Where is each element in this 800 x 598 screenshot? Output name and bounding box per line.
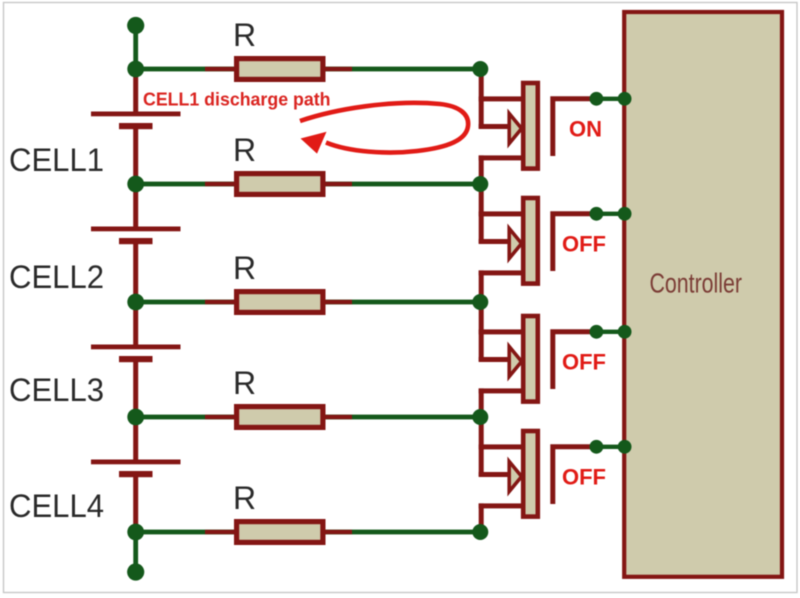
junction dot: node TAP1 at battery column <box>127 61 144 78</box>
svg-text:Controller: Controller <box>650 268 743 299</box>
junction dot: node TAP2 at MOSFET column <box>472 176 488 192</box>
junction dot: Controller pin 1 <box>618 92 632 106</box>
svg-text:OFF: OFF <box>562 349 606 374</box>
resistor R4 leads (dark red) on net TAP4 <box>205 415 352 419</box>
svg-text:CELL2: CELL2 <box>9 259 104 295</box>
wire: gate of Q2 to Controller pin 2 (green stub) <box>595 212 625 216</box>
transistor Q3 (N-MOSFET switch across CELL3) <box>479 302 598 417</box>
svg-text:OFF: OFF <box>562 231 606 256</box>
resistor R5 leads (dark red) on net TAP5 <box>205 530 352 534</box>
junction dot: gate net Q4 <box>590 440 604 454</box>
node: pack positive terminal dot <box>127 17 144 34</box>
wire: gate of Q1 to Controller pin 1 (green stub) <box>595 97 625 101</box>
resistor R5 body <box>237 522 323 543</box>
svg-text:CELL3: CELL3 <box>9 372 104 408</box>
resistor R3 leads (dark red) on net TAP3 <box>205 300 352 304</box>
junction dot: node TAP1 at MOSFET column <box>472 61 488 77</box>
wire: node TAP5 to battery stack bottom terminal <box>133 532 138 572</box>
svg-text:R: R <box>233 250 256 286</box>
transistor Q1 (N-MOSFET switch across CELL1) <box>479 69 598 184</box>
junction dot: node TAP3 at MOSFET column <box>472 294 488 310</box>
junction dot: node TAP3 at battery column <box>127 294 144 311</box>
junction dot: node TAP4 at battery column <box>127 409 144 426</box>
svg-text:R: R <box>233 365 256 401</box>
battery cell CELL1 (B1) <box>91 71 181 184</box>
junction dot: gate net Q3 <box>590 325 604 339</box>
battery cell CELL3 (B3) <box>91 304 181 417</box>
junction dot: Controller pin 4 <box>618 440 632 454</box>
resistor R1 leads (dark red) on net TAP1 <box>205 67 352 71</box>
svg-text:CELL1 discharge path: CELL1 discharge path <box>143 90 331 110</box>
junction dot: Controller pin 2 <box>618 207 632 221</box>
junction dot: node TAP2 at battery column <box>127 176 144 193</box>
wire: net TAP2 horizontal from battery column to MOSFET column <box>134 182 483 187</box>
svg-text:R: R <box>233 480 256 516</box>
junction dot: node TAP5 at MOSFET column <box>472 524 488 540</box>
junction dot: node TAP5 at battery column <box>127 524 144 541</box>
junction dot: Controller pin 3 <box>618 325 632 339</box>
resistor R2 leads (dark red) on net TAP2 <box>205 182 352 186</box>
transistor Q2 (N-MOSFET switch across CELL2) <box>479 184 598 302</box>
resistor R3 body <box>237 292 323 313</box>
junction dot: node TAP4 at MOSFET column <box>472 409 488 425</box>
wire: gate of Q4 to Controller pin 4 (green stub) <box>595 445 625 449</box>
wire: net TAP5 horizontal from battery column to MOSFET column <box>134 530 483 535</box>
node: pack negative terminal dot <box>127 563 144 580</box>
wire: battery stack top terminal to node TAP1 <box>133 25 138 69</box>
junction dot: gate net Q1 <box>590 92 604 106</box>
resistor R2 body <box>237 174 323 195</box>
svg-text:R: R <box>233 132 256 168</box>
battery cell CELL4 (B4) <box>91 419 181 532</box>
svg-text:ON: ON <box>569 116 602 141</box>
svg-text:R: R <box>233 17 256 53</box>
junction dot: gate net Q2 <box>590 207 604 221</box>
resistor R1 body <box>237 59 323 80</box>
controller U1 body <box>624 12 782 577</box>
svg-text:CELL4: CELL4 <box>9 488 104 524</box>
svg-text:OFF: OFF <box>562 464 606 489</box>
battery cell CELL2 (B2) <box>91 186 181 302</box>
annotation arrow: CELL1 discharge current loop <box>300 103 468 154</box>
wire: net TAP1 horizontal from battery column to MOSFET column <box>134 67 483 72</box>
resistor R4 body <box>237 407 323 428</box>
transistor Q4 (N-MOSFET switch across CELL4) <box>479 417 598 532</box>
svg-text:CELL1: CELL1 <box>9 142 104 178</box>
wire: gate of Q3 to Controller pin 3 (green stub) <box>595 330 625 334</box>
wire: net TAP4 horizontal from battery column to MOSFET column <box>134 415 483 420</box>
wire: net TAP3 horizontal from battery column to MOSFET column <box>134 300 483 305</box>
